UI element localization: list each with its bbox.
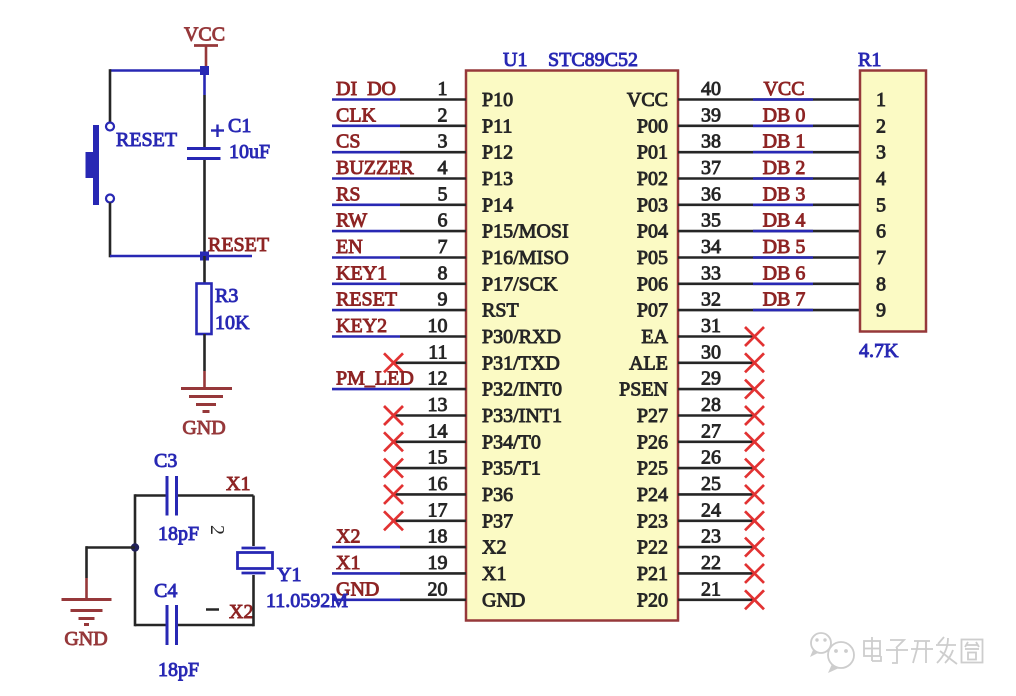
svg-text:5: 5 xyxy=(876,194,886,216)
svg-text:P07: P07 xyxy=(637,300,668,322)
svg-text:P30/RXD: P30/RXD xyxy=(482,326,561,348)
U1 pin name P10 xyxy=(482,89,513,111)
svg-text:CS: CS xyxy=(336,131,360,153)
U1 pin name P05 xyxy=(637,247,668,269)
svg-text:4: 4 xyxy=(438,157,448,179)
switch label RESET xyxy=(116,129,177,151)
U1 pin number 5 xyxy=(438,183,448,205)
svg-text:DB 6: DB 6 xyxy=(763,262,806,284)
svg-text:DB 5: DB 5 xyxy=(763,236,806,258)
wire U1 pin 21 (no connect) xyxy=(678,598,754,601)
U1 pin name P32/INT0 xyxy=(482,379,562,401)
U1 pin number 20 xyxy=(428,578,448,600)
U1 pin name P27 xyxy=(637,405,668,427)
svg-text:26: 26 xyxy=(701,447,721,469)
svg-text:7: 7 xyxy=(876,247,886,269)
U1 pin name P03 xyxy=(637,194,668,216)
svg-text:29: 29 xyxy=(701,368,721,390)
svg-text:7: 7 xyxy=(438,236,448,258)
C4 value 18pF xyxy=(158,659,199,681)
svg-text:18: 18 xyxy=(428,526,448,548)
wire U1 pin 33 to R1 (net DB6) xyxy=(678,282,860,285)
svg-text:6: 6 xyxy=(876,221,886,243)
svg-text:DB 4: DB 4 xyxy=(763,210,806,232)
svg-text:P35/T1: P35/T1 xyxy=(482,458,541,480)
wire U1 pin 9 (net RESET) xyxy=(332,309,466,312)
svg-text:KEY1: KEY1 xyxy=(336,262,387,284)
wire U1 pin 25 (no connect) xyxy=(678,493,754,496)
svg-text:13: 13 xyxy=(428,394,448,416)
svg-text:VCC: VCC xyxy=(763,78,804,100)
svg-text:20: 20 xyxy=(428,578,448,600)
net label RS xyxy=(336,183,360,205)
net label DB6 xyxy=(763,262,806,284)
U1 pin number 12 xyxy=(428,368,448,390)
R3 value 10K xyxy=(215,312,250,334)
U1 pin name P17/SCK xyxy=(482,273,558,295)
watermark logo chat bubbles xyxy=(810,633,854,673)
ground symbol GND (crystal) xyxy=(62,600,112,625)
U1 pin number 29 xyxy=(701,368,721,390)
net label DB0 xyxy=(763,104,806,126)
R3 reference designator xyxy=(215,285,238,307)
svg-text:P10: P10 xyxy=(482,89,513,111)
svg-text:32: 32 xyxy=(701,289,721,311)
pushbutton switch RESET xyxy=(86,123,115,206)
U1 pin number 1 xyxy=(438,78,448,100)
svg-text:18pF: 18pF xyxy=(158,523,199,545)
wire U1 pin 3 (net CS) xyxy=(332,151,466,154)
U1 pin name P31/TXD xyxy=(482,352,560,374)
U1 pin number 39 xyxy=(701,104,721,126)
wire U1 pin 38 to R1 (net DB1) xyxy=(678,151,860,154)
svg-text:P16/MISO: P16/MISO xyxy=(482,247,569,269)
svg-text:RST: RST xyxy=(482,300,519,322)
svg-text:31: 31 xyxy=(701,315,721,337)
wire X1 top horizontal xyxy=(135,494,254,497)
R1 pin number 2 xyxy=(876,115,886,137)
U1 pin name VCC xyxy=(627,89,668,111)
svg-text:P11: P11 xyxy=(482,115,512,137)
svg-text:37: 37 xyxy=(701,157,721,179)
svg-text:U1: U1 xyxy=(503,49,527,71)
C3 value 18pF xyxy=(158,523,199,545)
svg-text:8: 8 xyxy=(438,262,448,284)
U1 pin name P04 xyxy=(637,221,668,243)
U1 pin number 25 xyxy=(701,473,721,495)
svg-text:3: 3 xyxy=(876,142,886,164)
U1 pin name EA xyxy=(641,326,668,348)
svg-text:38: 38 xyxy=(701,131,721,153)
svg-text:P27: P27 xyxy=(637,405,668,427)
svg-text:28: 28 xyxy=(701,394,721,416)
wire U1 pin 24 (no connect) xyxy=(678,519,754,522)
net label DI DO xyxy=(336,78,396,100)
svg-text:12: 12 xyxy=(428,368,448,390)
wire U1 pin 11 (no connect) xyxy=(393,361,466,364)
C4 reference designator xyxy=(154,580,177,602)
wire C1 to RESET node xyxy=(203,160,206,256)
U1 pin number 13 xyxy=(428,394,448,416)
net label DB1 xyxy=(763,131,806,153)
U1 pin name P01 xyxy=(637,142,668,164)
svg-text:P26: P26 xyxy=(637,431,668,453)
wire U1 pin 34 to R1 (net DB5) xyxy=(678,256,860,259)
node junction crystal left xyxy=(131,543,139,551)
svg-text:X2: X2 xyxy=(336,526,360,548)
net label PM_LED xyxy=(336,368,414,390)
wire switch bottom to RESET node xyxy=(110,255,252,258)
svg-text:PM_LED: PM_LED xyxy=(336,368,414,390)
svg-text:P05: P05 xyxy=(637,247,668,269)
U1 pin number 28 xyxy=(701,394,721,416)
U1 pin name P06 xyxy=(637,273,668,295)
U1 pin number 10 xyxy=(428,315,448,337)
net label RW xyxy=(336,210,367,232)
svg-text:36: 36 xyxy=(701,183,721,205)
svg-text:VCC: VCC xyxy=(184,24,225,46)
U1 pin number 22 xyxy=(701,552,721,574)
svg-text:P02: P02 xyxy=(637,168,668,190)
watermark text kai xyxy=(911,641,933,663)
watermark text zi xyxy=(886,640,908,663)
U1 pin number 37 xyxy=(701,157,721,179)
watermark text dian xyxy=(864,637,881,661)
U1 pin number 16 xyxy=(428,473,448,495)
wire down to crystal GND xyxy=(85,546,88,599)
svg-text:5: 5 xyxy=(438,183,448,205)
watermark text quan xyxy=(962,640,983,663)
wire U1 pin 36 to R1 (net DB3) xyxy=(678,204,860,207)
svg-text:11: 11 xyxy=(428,341,447,363)
U1 pin number 21 xyxy=(701,578,721,600)
svg-text:P37: P37 xyxy=(482,510,513,532)
Y1 reference designator xyxy=(277,564,301,586)
net label DB3 xyxy=(763,183,806,205)
U1 pin number 7 xyxy=(438,236,448,258)
net label EN xyxy=(336,236,363,258)
svg-text:27: 27 xyxy=(701,420,721,442)
svg-text:22: 22 xyxy=(701,552,721,574)
U1 pin name P30/RXD xyxy=(482,326,561,348)
svg-text:25: 25 xyxy=(701,473,721,495)
net label CLK xyxy=(336,104,377,126)
wire U1 pin 27 (no connect) xyxy=(678,440,754,443)
U1 pin name P11 xyxy=(482,115,512,137)
net label RESET xyxy=(336,289,397,311)
svg-text:2: 2 xyxy=(206,525,228,535)
wire U1 pin 7 (net EN) xyxy=(332,256,466,259)
U1 pin name P24 xyxy=(637,484,668,506)
no-connect X pin 13 xyxy=(384,406,403,425)
U1 pin name P34/T0 xyxy=(482,431,541,453)
no-connect X pin 17 xyxy=(384,511,403,530)
svg-text:P32/INT0: P32/INT0 xyxy=(482,379,562,401)
U1 pin number 40 xyxy=(701,78,721,100)
svg-text:RESET: RESET xyxy=(116,129,177,151)
no-connect X pin 16 xyxy=(384,485,403,504)
svg-text:39: 39 xyxy=(701,104,721,126)
svg-text:8: 8 xyxy=(876,273,886,295)
capacitor C1 xyxy=(187,125,224,159)
wire U1 pin 16 (no connect) xyxy=(393,493,466,496)
C1 reference designator xyxy=(228,115,251,137)
svg-text:P06: P06 xyxy=(637,273,668,295)
net label DB2 xyxy=(763,157,806,179)
svg-text:EN: EN xyxy=(336,236,363,258)
U1 pin number 31 xyxy=(701,315,721,337)
svg-text:P33/INT1: P33/INT1 xyxy=(482,405,562,427)
U1 pin name P14 xyxy=(482,194,513,216)
U1 pin name P12 xyxy=(482,142,513,164)
svg-text:24: 24 xyxy=(701,499,721,521)
svg-text:X2: X2 xyxy=(229,601,253,623)
svg-text:30: 30 xyxy=(701,341,721,363)
node junction RESET xyxy=(200,252,209,261)
GND label (crystal) xyxy=(64,628,107,650)
R1 pin number 7 xyxy=(876,247,886,269)
wire U1 pin 12 (net PM_LED) xyxy=(332,388,466,391)
wire U1 pin 10 (net KEY2) xyxy=(332,335,466,338)
no-connect X pin 26 xyxy=(745,459,764,478)
R1 pin number 8 xyxy=(876,273,886,295)
no-connect X pin 30 xyxy=(745,353,764,372)
svg-text:X2: X2 xyxy=(482,537,506,559)
Y1 pin number 1 (rotated) xyxy=(206,608,219,611)
wire VCC junction to switch top xyxy=(110,69,205,72)
wire U1 pin 8 (net KEY1) xyxy=(332,282,466,285)
no-connect X pin 21 xyxy=(745,590,764,609)
U1 pin number 6 xyxy=(438,210,448,232)
U1 pin name P26 xyxy=(637,431,668,453)
U1 pin number 34 xyxy=(701,236,721,258)
wire U1 pin 37 to R1 (net DB2) xyxy=(678,177,860,180)
svg-text:15: 15 xyxy=(428,447,448,469)
wire U1 pin 28 (no connect) xyxy=(678,414,754,417)
svg-text:C4: C4 xyxy=(154,580,177,602)
svg-text:DB 1: DB 1 xyxy=(763,131,806,153)
net label X2 xyxy=(336,526,360,548)
svg-text:10K: 10K xyxy=(215,312,250,334)
U1 pin name P15/MOSI xyxy=(482,221,569,243)
U1 pin name X1 xyxy=(482,563,506,585)
U1 pin name P23 xyxy=(637,510,668,532)
U1 pin name P35/T1 xyxy=(482,458,541,480)
crystal Y1 xyxy=(238,548,273,573)
resistor network R1 body xyxy=(860,71,926,332)
net label CS xyxy=(336,131,360,153)
net label X1 (crystal) xyxy=(226,473,250,495)
wire U1 pin 31 (no connect) xyxy=(678,335,754,338)
U1 pin name P36 xyxy=(482,484,513,506)
wire U1 pin 14 (no connect) xyxy=(393,440,466,443)
svg-text:RS: RS xyxy=(336,183,360,205)
svg-text:P12: P12 xyxy=(482,142,513,164)
svg-text:P17/SCK: P17/SCK xyxy=(482,273,558,295)
wire U1 pin 2 (net CLK) xyxy=(332,125,466,128)
svg-text:RESET: RESET xyxy=(336,289,397,311)
R1 reference designator xyxy=(858,49,881,71)
no-connect X pin 31 xyxy=(745,327,764,346)
svg-text:X1: X1 xyxy=(336,552,360,574)
svg-text:RW: RW xyxy=(336,210,367,232)
svg-text:P03: P03 xyxy=(637,194,668,216)
U1 pin name P02 xyxy=(637,168,668,190)
svg-text:P00: P00 xyxy=(637,115,668,137)
U1 pin name P20 xyxy=(637,589,668,611)
wire R3 to GND xyxy=(203,334,206,389)
U1 reference designator xyxy=(503,49,527,71)
op IC U1 STC89C52 body xyxy=(466,71,678,621)
svg-text:GND: GND xyxy=(482,589,525,611)
U1 pin number 26 xyxy=(701,447,721,469)
svg-text:P15/MOSI: P15/MOSI xyxy=(482,221,569,243)
U1 pin name GND xyxy=(482,589,525,611)
U1 pin name P07 xyxy=(637,300,668,322)
node junction at VCC xyxy=(200,66,209,75)
svg-text:1: 1 xyxy=(438,78,448,100)
svg-text:P25: P25 xyxy=(637,458,668,480)
U1 pin name P33/INT1 xyxy=(482,405,562,427)
U1 pin number 32 xyxy=(701,289,721,311)
wire U1 pin 40 to R1 (net VCC) xyxy=(678,98,860,101)
no-connect X pin 25 xyxy=(745,485,764,504)
U1 pin number 11 xyxy=(428,341,447,363)
U1 pin name P21 xyxy=(637,563,668,585)
svg-text:P20: P20 xyxy=(637,589,668,611)
U1 pin number 8 xyxy=(438,262,448,284)
svg-text:17: 17 xyxy=(428,499,448,521)
U1 pin number 38 xyxy=(701,131,721,153)
U1 pin number 3 xyxy=(438,131,448,153)
Y1 value 11.0592M xyxy=(266,590,348,612)
U1 pin number 35 xyxy=(701,210,721,232)
svg-text:R3: R3 xyxy=(215,285,238,307)
U1 pin name P37 xyxy=(482,510,513,532)
R1 pin number 1 xyxy=(876,89,886,111)
svg-text:P14: P14 xyxy=(482,194,513,216)
wire X2 bottom horizontal xyxy=(135,624,254,627)
wire U1 pin 32 to R1 (net DB7) xyxy=(678,309,860,312)
C1 value 10uF xyxy=(229,141,270,163)
wire U1 pin 22 (no connect) xyxy=(678,572,754,575)
no-connect X pin 11 xyxy=(384,353,403,372)
U1 pin number 4 xyxy=(438,157,448,179)
svg-text:DB 7: DB 7 xyxy=(763,289,806,311)
wire U1 pin 23 (no connect) xyxy=(678,546,754,549)
svg-text:X1: X1 xyxy=(482,563,506,585)
svg-text:34: 34 xyxy=(701,236,721,258)
U1 pin name P25 xyxy=(637,458,668,480)
U1 pin name P00 xyxy=(637,115,668,137)
wire left vertical C3 to C4 xyxy=(134,494,137,626)
U1 pin number 19 xyxy=(428,552,448,574)
svg-text:ALE: ALE xyxy=(629,352,668,374)
svg-text:10: 10 xyxy=(428,315,448,337)
svg-text:P34/T0: P34/T0 xyxy=(482,431,541,453)
net label DB7 xyxy=(763,289,806,311)
net label VCC xyxy=(763,78,804,100)
C3 reference designator xyxy=(154,450,177,472)
wire U1 pin 17 (no connect) xyxy=(393,519,466,522)
no-connect X pin 29 xyxy=(745,380,764,399)
svg-text:14: 14 xyxy=(428,420,448,442)
net label RESET xyxy=(208,234,269,256)
no-connect X pin 23 xyxy=(745,538,764,557)
svg-text:P21: P21 xyxy=(637,563,668,585)
svg-text:9: 9 xyxy=(876,300,886,322)
wire VCC junction down to C1 xyxy=(203,71,206,148)
Y1 pin number 2 (rotated) xyxy=(206,525,228,535)
svg-text:35: 35 xyxy=(701,210,721,232)
svg-text:PSEN: PSEN xyxy=(619,379,668,401)
svg-text:19: 19 xyxy=(428,552,448,574)
wire U1 pin 29 (no connect) xyxy=(678,388,754,391)
wire junction to GND stub xyxy=(86,546,135,549)
wire U1 pin 30 (no connect) xyxy=(678,361,754,364)
U1 pin number 17 xyxy=(428,499,448,521)
wire crystal right vertical top xyxy=(252,496,255,547)
svg-text:P01: P01 xyxy=(637,142,668,164)
U1 pin number 2 xyxy=(438,104,448,126)
U1 pin name P13 xyxy=(482,168,513,190)
svg-text:2: 2 xyxy=(876,115,886,137)
U1 pin name RST xyxy=(482,300,519,322)
wire U1 pin 35 to R1 (net DB4) xyxy=(678,230,860,233)
power symbol VCC xyxy=(184,24,225,68)
svg-text:Y1: Y1 xyxy=(277,564,301,586)
svg-text:DB 0: DB 0 xyxy=(763,104,806,126)
R1 pin number 4 xyxy=(876,168,886,190)
svg-text:9: 9 xyxy=(438,289,448,311)
wire U1 pin 39 to R1 (net DB0) xyxy=(678,125,860,128)
svg-text:6: 6 xyxy=(438,210,448,232)
wire U1 pin 4 (net BUZZER) xyxy=(332,177,466,180)
svg-text:R1: R1 xyxy=(858,49,881,71)
svg-text:1: 1 xyxy=(876,89,886,111)
svg-text:11.0592M: 11.0592M xyxy=(266,590,348,612)
R1 value 4.7K xyxy=(859,340,899,362)
wire U1 pin 5 (net RS) xyxy=(332,204,466,207)
resistor R3 xyxy=(197,284,212,335)
U1 pin name P22 xyxy=(637,537,668,559)
wire U1 pin 15 (no connect) xyxy=(393,467,466,470)
U1 pin name ALE xyxy=(629,352,668,374)
net label GND xyxy=(336,578,379,600)
svg-text:P36: P36 xyxy=(482,484,513,506)
svg-text:STC89C52: STC89C52 xyxy=(548,49,638,71)
svg-text:4: 4 xyxy=(876,168,886,190)
wire switch left vertical bottom xyxy=(109,203,112,258)
svg-text:3: 3 xyxy=(438,131,448,153)
U1 pin number 24 xyxy=(701,499,721,521)
capacitor C4 xyxy=(167,605,177,645)
svg-text:16: 16 xyxy=(428,473,448,495)
U1 pin number 27 xyxy=(701,420,721,442)
no-connect X pin 15 xyxy=(384,459,403,478)
svg-text:DI DO: DI DO xyxy=(336,78,396,100)
svg-text:DB 2: DB 2 xyxy=(763,157,806,179)
U1 pin number 30 xyxy=(701,341,721,363)
svg-text:2: 2 xyxy=(438,104,448,126)
svg-text:C3: C3 xyxy=(154,450,177,472)
svg-text:4.7K: 4.7K xyxy=(859,340,899,362)
svg-text:P24: P24 xyxy=(637,484,668,506)
U1 pin name P16/MISO xyxy=(482,247,569,269)
net label KEY2 xyxy=(336,315,387,337)
svg-text:P13: P13 xyxy=(482,168,513,190)
svg-text:X1: X1 xyxy=(226,473,250,495)
